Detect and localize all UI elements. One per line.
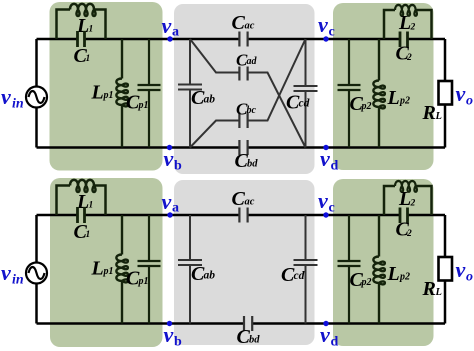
svg-text:1: 1 [89,25,94,35]
svg-text:o: o [466,270,473,285]
svg-text:in: in [12,273,24,288]
capacitor Cp1 shunt (bottom) [138,215,161,324]
capacitor Cbc with cross wires (top) [190,39,306,148]
inductor L1 (top) [57,4,106,39]
inductor Lp2 shunt (top) [373,39,384,148]
node va (top) [167,36,172,41]
inductor Lp1 shunt (top) [116,39,127,148]
capacitor Cp2 shunt (top) [338,39,361,148]
svg-text:L: L [387,263,400,285]
svg-text:L: L [435,287,442,298]
svg-text:v: v [164,146,174,171]
node vc (top) [323,36,328,41]
svg-text:v: v [162,13,172,38]
svg-text:ab: ab [204,94,216,106]
svg-text:v: v [456,257,466,282]
capacitor C2 (bottom) [400,208,408,224]
capacitor C2 (top) [400,32,408,48]
svg-text:bd: bd [247,159,258,170]
svg-text:L: L [91,258,104,280]
right green region (output matching network) [333,3,434,170]
svg-text:L: L [398,12,411,34]
voltage source v_in (bottom) [26,263,47,284]
svg-text:a: a [172,24,179,39]
svg-text:d: d [331,335,339,350]
inductor L1 (bottom) [57,180,106,215]
inductor L2 (bottom) [384,181,432,215]
voltage source v_in (top) [26,87,47,108]
node vc (bottom) [323,212,328,217]
svg-text:1: 1 [86,54,91,64]
svg-text:p1: p1 [103,266,114,277]
capacitor Cp1 shunt (top) [138,39,161,148]
capacitor Cp2 shunt (bottom) [338,215,361,324]
svg-text:v: v [318,188,328,213]
wire: middle square left vertical (top) [189,39,191,148]
svg-text:v: v [1,84,11,109]
inductor Lp1 shunt (bottom) [116,215,127,324]
svg-text:R: R [422,278,436,300]
svg-text:v: v [1,260,11,285]
svg-text:bc: bc [247,105,257,116]
svg-text:2: 2 [410,23,416,33]
svg-text:p1: p1 [103,90,114,101]
svg-text:ac: ac [245,21,255,32]
capacitor Cac (top) [239,32,247,47]
wire: bottom rail vb-vd bottom circuit y=323.5 [37,322,446,325]
inductor L2 (top) [384,5,432,39]
left green region bottom [50,178,163,347]
svg-text:C: C [232,12,246,34]
wire: top rail va-vc bottom circuit y=215 [37,214,446,217]
capacitor Cab (bottom) [178,260,202,265]
svg-text:L: L [435,111,442,122]
wire: bottom rail vb-vd y=147.5 [37,146,446,149]
wire: left source branch bottom [35,215,38,324]
svg-text:in: in [12,97,24,112]
svg-text:d: d [331,159,339,174]
node va (bottom) [167,212,172,217]
node vb (bottom) [167,321,172,326]
wire: middle square right vertical (top) [305,39,307,148]
svg-text:o: o [466,94,473,109]
capacitor Cbd (bottom) [244,316,252,331]
svg-text:v: v [164,322,174,347]
svg-text:v: v [162,189,172,214]
node vd (bottom) [323,321,328,326]
svg-text:2: 2 [410,199,416,209]
svg-text:2: 2 [406,53,412,63]
capacitor Cad with cross wires (top) [190,39,306,148]
svg-text:v: v [318,12,328,37]
node vd (top) [323,145,328,150]
resistor RL (bottom) [439,257,453,281]
svg-text:C: C [232,188,246,210]
svg-text:ab: ab [204,270,216,282]
left green region (input matching network) [50,2,163,171]
capacitor Cbd (top) [239,140,247,155]
middle gray region bottom [174,180,315,345]
node vb (top) [167,145,172,150]
capacitor Ccd (bottom) [294,260,318,265]
svg-text:bd: bd [249,335,260,346]
svg-text:ad: ad [247,56,258,67]
wire: middle square left vertical (bottom) [189,215,191,324]
wire: right load branch bottom [444,215,447,324]
svg-text:b: b [174,335,182,350]
svg-text:1: 1 [86,230,91,240]
capacitor Ccd (top) [294,86,318,91]
capacitor Cac (bottom) [239,208,247,223]
capacitor C1 (bottom) [78,207,85,223]
svg-text:c: c [329,200,335,215]
resistor RL (top) [439,81,453,105]
svg-text:p2: p2 [399,272,410,283]
svg-text:p2: p2 [361,277,372,288]
svg-text:p2: p2 [399,96,410,107]
wire: top rail va-vc y=39 [37,38,446,41]
svg-text:ac: ac [245,197,255,208]
svg-text:v: v [320,146,330,171]
wire: middle square right vertical (bottom) [305,215,307,324]
inductor Lp2 shunt (bottom) [373,215,384,324]
svg-text:p1: p1 [138,276,149,287]
svg-text:v: v [456,81,466,106]
svg-text:2: 2 [406,229,412,239]
svg-text:c: c [329,24,335,39]
svg-text:a: a [172,200,179,215]
svg-text:R: R [422,102,436,124]
svg-text:L: L [398,188,411,210]
svg-text:cd: cd [299,98,310,110]
svg-text:p2: p2 [361,101,372,112]
wire: left source branch [35,39,38,148]
svg-text:L: L [91,82,104,104]
svg-text:p1: p1 [138,100,149,111]
svg-text:L: L [387,87,400,109]
svg-text:b: b [174,159,182,174]
wire: right load branch [444,39,447,148]
capacitor C1 (top) [78,31,85,47]
svg-text:v: v [320,322,330,347]
svg-text:1: 1 [89,201,94,211]
capacitor Cab (top) [178,85,202,90]
svg-text:cd: cd [294,270,305,282]
middle gray region (coupling capacitor network) [174,4,315,174]
right green region bottom [333,179,434,346]
